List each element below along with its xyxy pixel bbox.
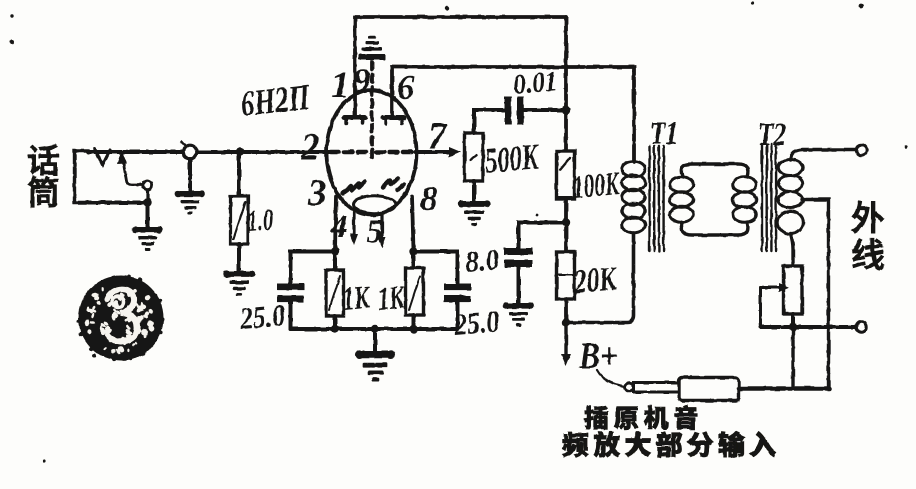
- resistor R4 20K: [557, 252, 575, 299]
- B+ supply arrow: [561, 326, 571, 366]
- value label 20K: [572, 260, 620, 301]
- svg-text:2: 2: [300, 127, 320, 168]
- transformer T1 label: [650, 116, 678, 152]
- wire pot bottom to plug line: [791, 327, 794, 386]
- wire output bottom: [761, 325, 857, 329]
- potentiometer R7 output level: [784, 266, 803, 327]
- value label 25.0 (right): [452, 303, 501, 342]
- ground (connector): [175, 190, 206, 214]
- value label 1.0: [246, 203, 274, 238]
- node bus center: [371, 325, 379, 351]
- svg-text:5: 5: [366, 214, 383, 250]
- svg-text:1K: 1K: [342, 280, 372, 318]
- svg-text:3: 3: [307, 173, 327, 214]
- terminal output bottom: [856, 322, 866, 332]
- connector J1 shielded input: [182, 142, 197, 159]
- value label 25.0 (left): [238, 297, 287, 336]
- wire T2 tap to plug: [802, 200, 829, 388]
- resistor R3 100K: [557, 151, 575, 199]
- svg-text:8: 8: [420, 179, 438, 218]
- caption line 2 频放大部分输入: [562, 431, 775, 457]
- mic lead terminal circle: [143, 180, 152, 201]
- tube V1 envelope: [327, 90, 417, 215]
- wire C1 to rail: [524, 108, 566, 112]
- potentiometer R2 500K: [465, 133, 484, 181]
- plate P2 (pin 6): [383, 118, 404, 124]
- wire T1 secondary to T2 primary (top): [681, 164, 748, 177]
- wire 20K to B+ node: [564, 299, 568, 322]
- resistor R5 1K cathode (left): [326, 252, 344, 330]
- transformer T2 core: [762, 144, 776, 251]
- transformer T2 label: [758, 117, 786, 153]
- label B+: [578, 336, 618, 377]
- node bus right: [409, 325, 417, 333]
- heater filament: [354, 196, 396, 213]
- svg-text:1.0: 1.0: [246, 203, 274, 238]
- leader line B+ to plug: [597, 370, 625, 387]
- pin label 6: [397, 68, 415, 107]
- svg-text:100K: 100K: [572, 166, 622, 206]
- pot wiper arrow: [761, 283, 790, 327]
- pin label 5: [366, 214, 383, 250]
- wire cathode ground bus: [291, 327, 458, 331]
- heater pin 4 lead: [350, 213, 358, 245]
- transformer T2 secondary winding: [778, 160, 804, 235]
- ground (R1): [223, 270, 255, 295]
- node decoupling junction: [562, 218, 570, 226]
- plug shaft: [634, 383, 681, 393]
- wire shield lead (dashed): [370, 62, 374, 158]
- wire plate1 top loop: [355, 17, 566, 115]
- heater pin 5 lead: [378, 215, 386, 248]
- ground (500K): [458, 200, 490, 225]
- pin label 8: [420, 179, 438, 218]
- resistor R1 1.0 grid leak: [231, 152, 249, 271]
- svg-text:500K: 500K: [483, 136, 541, 181]
- wire 500K top to C1: [474, 110, 504, 133]
- wire B+ node to T1 primary: [566, 233, 634, 323]
- capacitor C2 8.0 decoupling: [504, 223, 566, 304]
- wire connector to ground: [188, 159, 192, 191]
- microphone MIC (话筒) label: [28, 145, 59, 207]
- pin label 4: [330, 209, 348, 245]
- svg-text:0.01: 0.01: [512, 66, 559, 101]
- wire B+ rail: [564, 17, 568, 151]
- transformer T1 secondary winding: [670, 177, 694, 223]
- plate P1 (pin 1): [344, 118, 365, 124]
- value label 8.0: [464, 243, 501, 279]
- pin label 7: [428, 116, 448, 157]
- value label 0.01: [512, 66, 559, 101]
- node cathode K2: [409, 247, 417, 255]
- transformer T1 primary winding: [622, 161, 646, 233]
- ink speck on wire: [274, 150, 279, 155]
- plug tip: [625, 383, 634, 392]
- ground (shield, pointing up): [359, 36, 386, 60]
- cathode K2 (pin 8): [383, 179, 404, 191]
- svg-text:20K: 20K: [572, 260, 620, 301]
- svg-text:1: 1: [331, 65, 350, 106]
- node pot bottom: [789, 323, 797, 331]
- node bus left: [331, 325, 339, 333]
- wire pin7 to pot wiper: [415, 147, 461, 157]
- ground (cathode bus): [355, 350, 395, 381]
- mic contact V symbol: [95, 149, 110, 165]
- grid G1 (pin 2, dashed): [331, 150, 368, 155]
- caption line 1 插原机音: [584, 405, 697, 429]
- transformer T2 primary winding: [733, 177, 757, 223]
- node mic ground junction: [143, 198, 151, 227]
- wire T2 secondary bottom to pot: [791, 234, 794, 267]
- value label 1K (left): [342, 280, 372, 318]
- svg-text:4: 4: [330, 209, 348, 245]
- wire plug to T2 tap and pot bottom: [739, 386, 829, 391]
- pin label 3: [307, 173, 327, 214]
- wire T2 secondary top to output terminal: [791, 150, 857, 161]
- wire T1 secondary to T2 primary (bottom): [681, 222, 748, 235]
- grid G2 (pin 7, dashed): [376, 150, 414, 155]
- label 外线 (external line): [852, 201, 884, 270]
- pin label 2: [300, 127, 320, 168]
- node cathode K1: [331, 247, 339, 255]
- ground (mic): [132, 226, 163, 250]
- mic wiper arrow and lead: [117, 150, 143, 185]
- wire 500K bottom: [472, 181, 476, 201]
- value label 1K (right): [377, 280, 407, 318]
- wire 100K to 20K: [564, 199, 568, 252]
- svg-text:6: 6: [397, 68, 415, 107]
- svg-text:25.0: 25.0: [238, 297, 287, 336]
- value label 100K: [572, 166, 622, 206]
- capacitor C4 25.0 bypass (right): [414, 252, 472, 330]
- svg-text:9: 9: [353, 61, 371, 100]
- pin label 1: [331, 65, 350, 106]
- node grid junction: [236, 148, 244, 156]
- cathode K1 (pin 3): [343, 182, 365, 194]
- ground (C2): [503, 302, 534, 326]
- value label 500K: [483, 136, 541, 181]
- transformer T1 core: [650, 146, 664, 251]
- wire mic bottom: [88, 201, 148, 205]
- svg-text:25.0: 25.0: [452, 303, 501, 342]
- svg-text:1K: 1K: [377, 280, 407, 318]
- microphone element symbol: [75, 151, 90, 203]
- wire input line: [88, 150, 330, 154]
- node B+ junction: [562, 318, 570, 326]
- node rail/C1 junction: [562, 106, 570, 114]
- resistor R6 1K cathode (right): [406, 252, 424, 330]
- plug body: [679, 378, 739, 401]
- wire plate2 to T1: [392, 67, 634, 162]
- svg-text:8.0: 8.0: [464, 243, 501, 279]
- pin label 9: [353, 61, 371, 100]
- svg-text:6Н2П: 6Н2П: [239, 77, 313, 124]
- capacitor C1 0.01 coupling: [505, 97, 524, 125]
- tube label 6Н2П: [239, 77, 313, 124]
- terminal output top: [856, 145, 866, 155]
- capacitor C3 25.0 bypass (left): [277, 252, 335, 330]
- print blob artifact: [77, 275, 165, 361]
